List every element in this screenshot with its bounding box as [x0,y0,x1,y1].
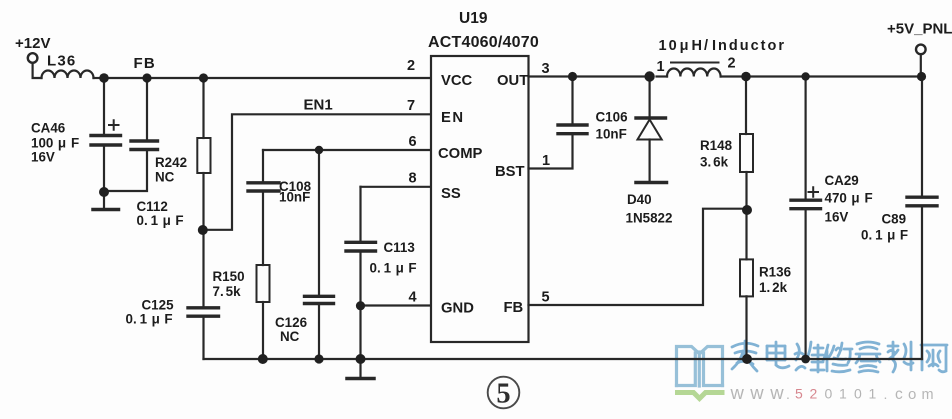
svg-text:OUT: OUT [497,73,528,89]
svg-text:w: w [730,382,745,403]
terminal +5V_PNL [916,45,926,55]
node FB junction at C112 [142,73,151,82]
svg-text:BST: BST [495,164,525,180]
wire bottom bus [204,358,923,360]
svg-text:16V: 16V [825,210,849,225]
svg-text:NC: NC [155,170,175,185]
svg-text:+12V: +12V [15,35,50,52]
node bus/R136 junction [742,354,752,364]
svg-text:1: 1 [542,153,550,169]
svg-text:.: . [786,386,790,402]
terminal +12V [28,53,38,63]
wire SS [361,186,432,188]
svg-text:3: 3 [542,61,550,77]
svg-text:0: 0 [825,386,833,402]
IC U19 box [431,56,529,342]
svg-text:2: 2 [810,386,818,402]
node R242 top junction [199,73,208,82]
wire COMP [263,149,431,151]
svg-text:c: c [895,386,903,403]
capacitor C108 [262,150,264,181]
svg-text:FB: FB [134,55,156,72]
resistor R148 [745,77,747,135]
capacitor CA46 [103,78,105,134]
capacitor C125 [202,230,204,306]
svg-text:R242: R242 [155,155,187,170]
svg-text:10μH/Inductor: 10μH/Inductor [659,38,787,54]
svg-text:5: 5 [496,379,510,410]
svg-text:C89: C89 [882,212,907,227]
svg-text:7.5k: 7.5k [213,284,242,299]
svg-text:GND: GND [441,301,474,317]
node bus/C113 ground junction [356,354,366,364]
svg-text:4: 4 [409,290,417,306]
svg-text:5: 5 [542,290,550,306]
ground [359,359,361,377]
node rail/CA29 junction [801,72,809,80]
svg-text:m: m [922,387,934,403]
watermark logo book icon [677,347,723,387]
svg-text:5: 5 [795,386,803,402]
resistor R150 [257,265,270,302]
node rail/C89/+5V junction [917,72,926,81]
svg-text:R148: R148 [700,138,733,153]
node EN1/R242/C125 junction [198,225,208,235]
svg-text:0: 0 [854,386,862,402]
capacitor CA29 [804,77,806,199]
svg-text:.: . [884,386,888,402]
wire GND pin4 [361,304,432,306]
node bus/C126 junction [314,354,323,363]
svg-text:C126: C126 [275,315,307,330]
node GND/C113 junction [356,301,365,310]
svg-text:SS: SS [441,186,461,202]
node L36/CA46 junction [99,73,109,83]
svg-text:C113: C113 [384,240,415,255]
resistor R136 [745,210,747,259]
svg-text:CA46: CA46 [31,121,65,136]
svg-text:VCC: VCC [441,73,473,89]
resistor R242 [202,78,204,138]
svg-text:+5V_PNL: +5V_PNL [887,21,952,38]
svg-text:o: o [908,386,916,403]
svg-text:3.6k: 3.6k [700,155,729,170]
svg-text:8: 8 [409,171,417,187]
svg-text:2: 2 [407,58,415,74]
wire top-left rail [104,77,431,79]
svg-text:1N5822: 1N5822 [626,211,673,226]
svg-text:R150: R150 [213,269,245,284]
svg-text:2: 2 [728,56,736,72]
svg-text:6: 6 [409,134,417,150]
svg-text:w: w [749,382,764,403]
watermark chinese characters [732,341,947,372]
svg-text:FB: FB [504,300,524,316]
svg-text:CA29: CA29 [825,173,859,188]
page number circled 5 [488,377,520,410]
svg-text:EN: EN [441,110,465,126]
ground [103,192,105,208]
inductor 10uH [657,75,668,77]
svg-text:1: 1 [657,59,665,75]
svg-text:1: 1 [869,386,877,402]
svg-text:R136: R136 [759,265,791,280]
wire FB pin5 [529,209,747,305]
svg-text:C112: C112 [137,199,168,214]
svg-text:EN1: EN1 [304,97,333,114]
svg-text:1.2k: 1.2k [759,280,788,295]
svg-text:COMP: COMP [438,146,483,162]
node inductor/R148 junction [741,72,751,82]
node bus/R150 junction [258,354,268,364]
node bus/CA29 junction [801,355,810,364]
watermark url www.520101.com [730,382,934,403]
svg-text:1: 1 [839,386,847,402]
svg-text:L36: L36 [47,53,76,70]
wire top-right rail [746,75,922,77]
node OUT/C106 junction [568,72,577,81]
inductor L36 [42,71,94,78]
capacitor C112 [146,78,148,140]
svg-text:w: w [769,382,784,403]
capacitor C126 [318,150,320,295]
svg-text:10nF: 10nF [279,190,310,205]
node COMP/C126 junction [315,146,323,154]
svg-text:C106: C106 [596,110,628,125]
svg-text:16V: 16V [31,150,55,165]
diode D40 [648,77,650,117]
svg-text:C125: C125 [142,298,175,313]
svg-text:ACT4060/4070: ACT4060/4070 [428,34,539,51]
svg-text:10nF: 10nF [596,127,627,142]
node R148/R136/FB junction [742,205,752,215]
wire EN1 [204,114,432,230]
node switch/D40 junction [644,71,654,81]
ground [636,181,667,185]
wire [94,77,105,79]
svg-text:D40: D40 [627,192,652,207]
watermark green underline [675,393,725,399]
svg-text:NC: NC [280,329,300,344]
capacitor C113 [359,187,361,241]
svg-text:7: 7 [407,98,415,114]
wire OUT pin3 [529,75,650,77]
wire [33,63,42,78]
svg-text:U19: U19 [459,10,488,27]
node CA46/C112 ground junction [99,187,109,197]
capacitor C89 [920,55,922,77]
capacitor C106 [571,77,573,124]
